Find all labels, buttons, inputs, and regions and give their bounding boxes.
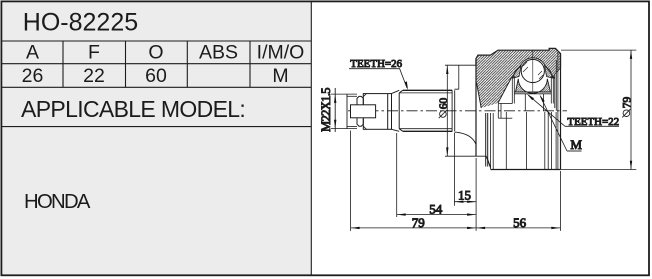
bore verticals [497,104,499,119]
svg-text:ABS: ABS [199,41,238,63]
spline TEETH=26 [398,93,400,129]
svg-text:79: 79 [412,215,425,230]
bell back face [475,59,477,157]
washer [357,96,363,126]
svg-text:M: M [570,137,582,152]
svg-text:A: A [26,41,39,63]
thread stub [346,94,348,129]
dim 15 [454,201,476,203]
dia79 dimension [561,49,636,51]
bottom dimension extension lines [350,131,352,231]
cage verticals [511,76,513,104]
table background [2,2,311,275]
nut block [363,94,391,130]
bell outer top [476,48,561,68]
cone to spline [392,90,400,93]
svg-text:54: 54 [429,201,443,216]
race spline verticals [524,94,526,111]
ball [521,59,544,82]
svg-text:M: M [272,65,288,87]
bell bottom [487,157,491,168]
svg-text:15: 15 [458,187,471,202]
bell right face [560,54,562,170]
svg-text:APPLICABLE MODEL:: APPLICABLE MODEL: [21,96,245,122]
centerline [348,110,567,112]
svg-text:TEETH=26: TEETH=26 [350,58,402,70]
bell wall hatch region (top half) [476,48,561,108]
svg-text:M22X1.5: M22X1.5 [319,88,333,132]
svg-text:I/M/O: I/M/O [257,41,305,63]
cage wings [513,66,521,78]
bottom half exterior rings [485,113,487,167]
dia60 dimension [445,64,476,66]
M22X1.5 dimension [331,88,357,132]
neck / transition [454,88,458,90]
svg-text:79: 79 [622,97,634,109]
svg-text:60: 60 [145,65,167,87]
svg-text:22: 22 [83,65,105,87]
cotter pin slot [351,105,376,118]
svg-text:F: F [88,41,100,63]
svg-text:56: 56 [513,215,527,230]
dim 54 [397,214,476,216]
svg-text:O: O [148,41,163,63]
svg-text:HO-82225: HO-82225 [23,9,138,37]
dim 56 [476,227,560,229]
svg-text:26: 26 [22,65,44,87]
svg-text:HONDA: HONDA [24,191,91,213]
inner race [516,79,551,94]
dim 79 [351,227,477,229]
inner boundary lines [477,83,482,108]
table grid lines [2,2,311,275]
svg-text:60: 60 [438,98,450,110]
